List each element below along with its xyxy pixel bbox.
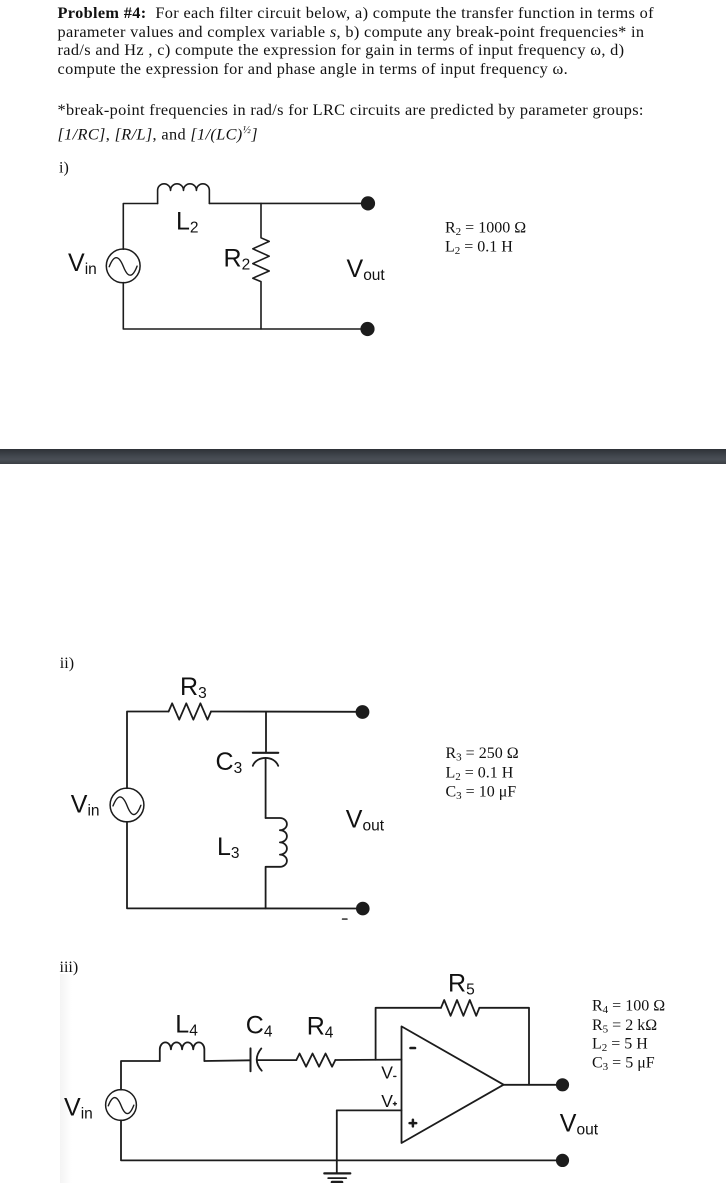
svg-text:L2 = 0.1 H: L2 = 0.1 H xyxy=(445,239,513,258)
svg-text:R5 = 2 kΩ: R5 = 2 kΩ xyxy=(592,1017,657,1036)
svg-text:L2: L2 xyxy=(176,208,199,237)
svg-text:Vout: Vout xyxy=(347,255,386,284)
dark divider bar xyxy=(0,449,726,464)
svg-text:Vin: Vin xyxy=(68,249,97,278)
capacitor C4 xyxy=(251,1048,262,1071)
output terminal top (circuit i) xyxy=(362,197,375,210)
svg-text:C4: C4 xyxy=(246,1011,273,1040)
wire source to inductor (circuit iii) xyxy=(121,1061,160,1090)
svg-text:iii): iii) xyxy=(60,959,79,976)
svg-text:C3 = 10 μF: C3 = 10 μF xyxy=(446,784,517,803)
wire capacitor to inductor (circuit ii) xyxy=(265,759,267,818)
svg-text:R3: R3 xyxy=(180,673,207,702)
output wire op-amp to terminal (circuit iii) xyxy=(504,1084,563,1086)
footnote paragraph xyxy=(58,100,708,144)
ground symbol xyxy=(324,1173,350,1182)
resistor R5 xyxy=(441,1000,479,1016)
svg-text:L4: L4 xyxy=(175,1010,198,1039)
voltage source Vin (circuit i) xyxy=(106,249,140,283)
output terminal bottom (circuit iii) xyxy=(557,1155,568,1166)
wire source to resistor (circuit ii) xyxy=(127,712,169,789)
svg-text:Vin: Vin xyxy=(64,1094,93,1123)
bottom wire source to bottom output node (circuit ii) xyxy=(127,822,363,909)
resistor R4 xyxy=(296,1054,335,1067)
voltage source Vin (circuit ii) xyxy=(110,788,144,822)
output terminal top (circuit ii) xyxy=(357,706,369,718)
inductor L2 xyxy=(158,184,210,204)
svg-text:R5: R5 xyxy=(448,970,475,999)
wire non-inverting node down through rail to ground (circuit iii) xyxy=(336,1110,338,1173)
svg-text:i): i) xyxy=(59,160,69,177)
output terminal bottom (circuit ii) xyxy=(357,903,369,915)
svg-text:L3: L3 xyxy=(217,833,240,862)
bottom rail source to bottom output terminal (circuit iii) xyxy=(121,1120,563,1160)
feedback wire down to output (circuit iii) xyxy=(479,1008,529,1085)
minus polarity mark (circuit ii) xyxy=(343,918,348,920)
problem statement paragraph xyxy=(58,4,708,79)
voltage source Vin (circuit iii) xyxy=(106,1090,137,1121)
wire source to inductor (circuit i) xyxy=(123,204,157,250)
svg-text:V: V xyxy=(381,1063,393,1083)
inductor L3 xyxy=(266,818,287,908)
svg-text:V: V xyxy=(381,1091,393,1111)
svg-text:Vin: Vin xyxy=(71,790,100,819)
wire node to capacitor (circuit ii) xyxy=(265,712,267,752)
wire ground to non-inverting input (circuit iii) xyxy=(337,1109,402,1111)
svg-text:R4 = 100 Ω: R4 = 100 Ω xyxy=(592,998,665,1017)
svg-text:R3 = 250 Ω: R3 = 250 Ω xyxy=(446,745,519,764)
op-amp U1 xyxy=(402,1026,504,1143)
output terminal bottom (circuit i) xyxy=(361,323,374,336)
svg-text:R2 = 1000 Ω: R2 = 1000 Ω xyxy=(445,220,526,239)
faint page-edge strip xyxy=(60,974,76,1183)
svg-text:L2 = 5 H: L2 = 5 H xyxy=(592,1036,648,1055)
svg-text:Vout: Vout xyxy=(346,806,385,835)
wire resistor to inverting input (circuit iii) xyxy=(335,1059,401,1061)
wire resistor to top output node (circuit ii) xyxy=(211,711,363,713)
minus sign inside op-amp xyxy=(411,1047,416,1050)
capacitor C3 xyxy=(253,753,278,766)
svg-text:C3: C3 xyxy=(216,748,243,777)
svg-text:R4: R4 xyxy=(307,1012,334,1041)
resistor R2 xyxy=(253,203,269,329)
svg-text:Vout: Vout xyxy=(560,1110,599,1139)
wire inductor to top output node (circuit i) xyxy=(209,202,368,204)
output terminal top (circuit iii) xyxy=(557,1079,568,1090)
plus sign inside op-amp xyxy=(410,1120,417,1127)
resistor R3 xyxy=(169,703,211,719)
wire inductor to capacitor (circuit iii) xyxy=(204,1059,250,1062)
svg-text:C3 = 5 μF: C3 = 5 μF xyxy=(592,1055,655,1074)
inductor L4 xyxy=(160,1042,205,1061)
svg-text:R2: R2 xyxy=(224,245,251,274)
svg-text:L2 = 0.1 H: L2 = 0.1 H xyxy=(446,765,514,784)
wire capacitor to resistor (circuit iii) xyxy=(257,1059,296,1061)
svg-text:ii): ii) xyxy=(60,655,74,672)
bottom wire source to bottom output node (circuit i) xyxy=(123,283,367,329)
feedback wire up from inverting node (circuit iii) xyxy=(376,1008,441,1060)
